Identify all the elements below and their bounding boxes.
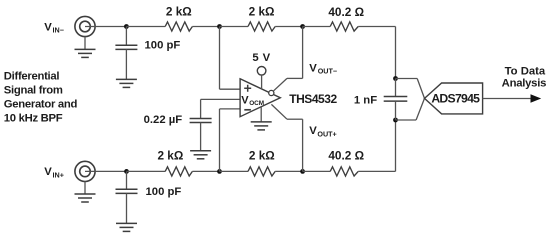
svg-text:2 kΩ: 2 kΩ (249, 4, 275, 18)
wire up to ADC bottom input node (395, 120, 397, 171)
VOCM input wire (201, 98, 241, 100)
svg-text:100 pF: 100 pF (145, 39, 181, 51)
wire VIN+ to node A2 (85, 170, 127, 172)
svg-text:10 kHz BPF: 10 kHz BPF (4, 113, 63, 125)
resistor R6 40.2 Ohm (330, 167, 358, 176)
resistor R5 2 kOhm (feedback bottom) (248, 167, 275, 176)
svg-text:IN−: IN− (53, 26, 64, 35)
svg-text:100 pF: 100 pF (146, 186, 182, 198)
wire R6 to bottom corner (358, 170, 395, 172)
svg-text:OCM: OCM (249, 100, 264, 107)
wire node A2 to R4 (127, 170, 166, 172)
wire R2 to node C (275, 26, 302, 28)
svg-text:IN+: IN+ (53, 170, 64, 179)
wire R4 to node B2 (192, 170, 219, 172)
ground (C2) (116, 222, 137, 224)
resistor R2 2 kOhm (feedback top) (248, 22, 275, 31)
capacitor C3 0.22 uF (190, 118, 212, 120)
op-amp + input marker (244, 85, 251, 92)
svg-text:V: V (241, 94, 249, 106)
svg-text:2 kΩ: 2 kΩ (249, 149, 275, 163)
wire node B to R2 (220, 26, 249, 28)
svg-text:2 kΩ: 2 kΩ (166, 4, 192, 18)
capacitor C2 100 pF (126, 171, 128, 189)
wire node B down to op-amp + input (219, 27, 221, 90)
op-amp - input marker (244, 109, 251, 111)
node A2 junction (124, 169, 129, 174)
svg-text:40.2 Ω: 40.2 Ω (328, 149, 364, 163)
svg-text:Analysis: Analysis (502, 78, 546, 90)
svg-text:V: V (309, 63, 317, 75)
wire node C to R3 (303, 26, 331, 28)
wire bottom input into ADC (396, 119, 417, 121)
ground (op-amp) (260, 107, 262, 122)
svg-text:0.22 µF: 0.22 µF (144, 114, 183, 126)
svg-text:5 V: 5 V (252, 52, 270, 64)
resistor R1 2 kOhm (165, 22, 192, 31)
op-amp inverting output bubble (269, 90, 274, 95)
connector J2 (VIN+ coax input) (75, 161, 95, 181)
svg-text:OUT−: OUT− (318, 67, 337, 76)
connector J1 (VIN- coax input) (75, 16, 95, 36)
wire node C2 to R6 (303, 170, 331, 172)
svg-text:2 kΩ: 2 kΩ (157, 148, 183, 162)
wire R5 to node C2 (275, 170, 302, 172)
svg-text:THS4532: THS4532 (289, 92, 337, 106)
wire R1 to node B (192, 26, 219, 28)
wire ADC output (483, 98, 532, 100)
node ADC bottom input junction (393, 118, 398, 123)
wire down to ADC top input node (395, 27, 397, 79)
wire VIN- to node A (85, 26, 126, 28)
node B2 junction (217, 169, 222, 174)
node A junction (124, 24, 129, 29)
arrowhead to data analysis (531, 94, 542, 102)
svg-text:Signal from: Signal from (4, 85, 63, 97)
ground (connector J1 shell) (84, 37, 86, 50)
ground (C3) (190, 150, 211, 152)
wire R3 to top corner (358, 26, 395, 28)
svg-text:Generator and: Generator and (4, 99, 78, 111)
ground (C1) (116, 78, 137, 80)
svg-text:To Data: To Data (505, 66, 546, 78)
node ADC top input junction (393, 76, 398, 81)
wire node B2 up to op-amp - input (219, 109, 221, 171)
op-amp U1 THS4532 triangle (240, 79, 280, 117)
svg-text:V: V (44, 21, 52, 33)
capacitor C1 100 pF (125, 27, 127, 46)
ground (connector J2 shell) (84, 182, 86, 195)
wire node B2 to R5 (220, 170, 249, 172)
wire op-amp OUT+ to node C2 (271, 104, 287, 119)
wire top input into ADC (396, 78, 418, 80)
node C junction (300, 24, 305, 29)
node B junction (217, 24, 222, 29)
ADC U2 ADS7945 symbol (425, 83, 483, 114)
svg-text:ADS7945: ADS7945 (431, 92, 480, 106)
svg-text:OUT+: OUT+ (317, 129, 336, 138)
node C2 junction (300, 169, 305, 174)
svg-text:1 nF: 1 nF (354, 95, 377, 107)
svg-text:40.2 Ω: 40.2 Ω (328, 5, 364, 19)
wire op-amp OUT- to node C (273, 78, 287, 91)
wire node A to R1 (126, 26, 165, 28)
svg-text:V: V (44, 166, 52, 178)
svg-text:Differential: Differential (4, 71, 60, 83)
resistor R4 2 kOhm (165, 167, 192, 176)
svg-text:V: V (309, 125, 317, 137)
resistor R3 40.2 Ohm (330, 22, 358, 31)
capacitor C4 1 nF (395, 79, 397, 97)
